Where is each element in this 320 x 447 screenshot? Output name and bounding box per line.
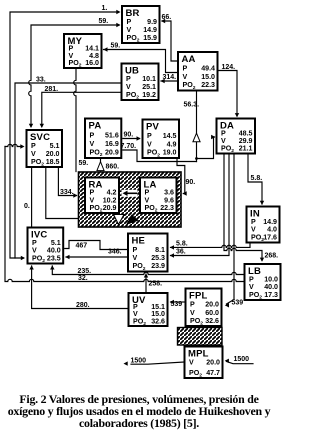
svg-text:10.1: 10.1: [142, 75, 156, 83]
svg-text:59.: 59.: [99, 18, 109, 25]
wire flow 33. UB to SVC: [15, 77, 120, 259]
svg-text:90.: 90.: [124, 132, 134, 139]
wire flow 59. BR-SVC trunk x31: [29, 18, 121, 128]
svg-text:PV: PV: [146, 122, 160, 133]
placental exchange hatched region: [178, 328, 223, 346]
svg-text:P: P: [31, 142, 36, 150]
svg-text:1500: 1500: [234, 356, 250, 363]
svg-text:1.: 1.: [102, 5, 108, 12]
svg-text:235.: 235.: [78, 268, 92, 275]
svg-text:4.9: 4.9: [167, 140, 177, 148]
svg-text:467: 467: [76, 243, 88, 250]
svg-text:10.0: 10.0: [264, 275, 278, 283]
wire flow 539. DA to FPL: [225, 155, 243, 308]
compartment UV: [129, 293, 168, 327]
svg-text:8.1: 8.1: [155, 246, 165, 254]
svg-text:AA: AA: [182, 54, 196, 65]
svg-text:32.6: 32.6: [205, 317, 219, 325]
svg-text:23.9: 23.9: [151, 262, 165, 270]
svg-text:PA: PA: [89, 121, 102, 132]
svg-text:20.0: 20.0: [205, 301, 219, 309]
caption Fig. 2: [0, 393, 283, 429]
compartment LB: [245, 264, 281, 301]
wire flow 258 UV to HE: [144, 273, 162, 291]
wire flow 59. MY to heart: [74, 70, 89, 172]
svg-text:32.: 32.: [78, 275, 88, 282]
svg-text:66.: 66.: [162, 14, 172, 21]
compartment BR: [122, 6, 160, 43]
svg-text:V: V: [190, 309, 195, 317]
wire flow 1500 maternal in: [225, 356, 253, 364]
svg-text:P: P: [147, 132, 152, 140]
svg-text:23.5: 23.5: [47, 254, 61, 262]
svg-text:19.0: 19.0: [163, 149, 177, 157]
svg-text:51.6: 51.6: [105, 132, 119, 140]
svg-text:860.: 860.: [106, 164, 120, 171]
svg-text:14.9: 14.9: [143, 26, 157, 34]
compartment SVC: [27, 130, 63, 167]
svg-text:539: 539: [171, 301, 183, 308]
wire flow 124. AA to DA: [219, 64, 239, 117]
wire flow 32. LB to SVC trunk: [5, 147, 243, 283]
svg-text:7.70.: 7.70.: [121, 143, 137, 150]
wire flow 281. UB to SVC: [40, 86, 120, 128]
svg-text:33.: 33.: [36, 77, 46, 84]
svg-text:P: P: [183, 65, 188, 73]
wire flow 5.8 DA to IN: [248, 155, 264, 205]
wire flow 90. PA to PV: [123, 132, 141, 141]
compartment PV: [143, 120, 180, 159]
svg-text:280.: 280.: [76, 302, 90, 309]
wire flow 235. LB to IVC: [50, 265, 243, 275]
svg-text:281.: 281.: [45, 86, 59, 93]
svg-text:P: P: [127, 18, 132, 26]
wire flow 5.8 IN to HE: [170, 241, 250, 250]
wire flow 0. SVC to IVC: [24, 169, 32, 227]
wire flow 467 IVC-HE: [65, 241, 127, 250]
svg-text:5.8.: 5.8.: [176, 241, 188, 248]
svg-text:P: P: [32, 239, 37, 247]
svg-text:P: P: [190, 301, 195, 309]
wire flow 346. HE to IVC: [65, 249, 126, 260]
svg-text:47.7: 47.7: [206, 369, 220, 377]
wire flow 770. ductus arteriosus PA to DA: [121, 143, 197, 161]
svg-text:20.9: 20.9: [103, 204, 117, 212]
svg-text:20.0: 20.0: [206, 358, 220, 366]
wire flow 280. UV to IVC: [29, 265, 127, 309]
compartment MY: [64, 34, 102, 69]
heart hatched region: [79, 172, 182, 227]
svg-text:49.4: 49.4: [201, 65, 215, 73]
valve arrow at heart bottom (black): [126, 215, 139, 226]
wire flow 56.3 AA to DA (isthmus): [184, 92, 216, 162]
svg-text:HE: HE: [132, 236, 146, 247]
svg-text:V: V: [183, 73, 188, 81]
svg-text:15.0: 15.0: [201, 73, 215, 81]
svg-text:5.8.: 5.8.: [251, 175, 263, 182]
svg-text:P: P: [251, 218, 256, 226]
svg-text:P: P: [249, 275, 254, 283]
svg-text:1500: 1500: [131, 358, 147, 365]
svg-text:17.3: 17.3: [264, 291, 278, 299]
svg-text:124.: 124.: [222, 64, 236, 71]
wire flow 90. PV to LA: [177, 160, 195, 196]
svg-text:36.: 36.: [176, 249, 186, 256]
svg-text:16.0: 16.0: [85, 59, 99, 67]
svg-text:V: V: [147, 140, 152, 148]
svg-text:9.9: 9.9: [147, 18, 157, 26]
compartment UB: [122, 64, 159, 101]
wire SVC to heart lower: [46, 169, 78, 219]
svg-text:334.: 334.: [60, 189, 74, 196]
svg-text:15.9: 15.9: [143, 34, 157, 42]
svg-text:V: V: [90, 140, 95, 148]
wire flow 66. AA to BR: [161, 14, 178, 61]
svg-text:20.9: 20.9: [105, 149, 119, 157]
svg-text:19.2: 19.2: [142, 91, 156, 99]
compartment MPL: [185, 347, 223, 379]
wire flow 1. trunk into BR and IVC: [10, 5, 121, 260]
svg-text:59.: 59.: [111, 43, 121, 50]
compartment HE: [128, 234, 168, 272]
svg-text:25.1: 25.1: [142, 83, 156, 91]
compartment DA: [217, 119, 256, 155]
svg-text:14.9: 14.9: [263, 218, 277, 226]
compartment FPL: [186, 289, 222, 327]
wire flow 860. heart to PA with valve: [101, 160, 120, 173]
svg-text:20.0: 20.0: [46, 150, 60, 158]
svg-text:90.: 90.: [186, 179, 196, 186]
svg-text:60.0: 60.0: [205, 309, 219, 317]
wire flow 268. DA to LB: [224, 155, 278, 262]
svg-text:25.3: 25.3: [151, 254, 165, 262]
wire into SVC left: [5, 144, 25, 148]
compartment IVC: [28, 228, 64, 265]
svg-text:16.9: 16.9: [105, 140, 119, 148]
svg-text:V: V: [31, 150, 36, 158]
svg-text:V: V: [126, 83, 131, 91]
check valve on aortic isthmus: [0, 0, 1, 1]
svg-text:P: P: [126, 75, 131, 83]
foramen ovale arrow between RA and LA: [122, 190, 138, 197]
wire flow 334. SVC to heart: [58, 169, 77, 198]
svg-text:17.6: 17.6: [263, 233, 277, 241]
svg-text:18.5: 18.5: [46, 158, 60, 166]
svg-text:21.1: 21.1: [239, 145, 253, 153]
wire flow 36. DA to HE: [170, 155, 229, 258]
svg-text:14.5: 14.5: [163, 132, 177, 140]
svg-text:268.: 268.: [265, 253, 279, 260]
svg-text:V: V: [127, 26, 132, 34]
compartment LA (atrium): [140, 178, 177, 214]
svg-text:56.3.: 56.3.: [184, 102, 200, 109]
compartment IN: [247, 207, 280, 244]
svg-text:22.3: 22.3: [160, 204, 174, 212]
compartment PA: [85, 119, 121, 159]
svg-text:P: P: [90, 132, 95, 140]
svg-text:0.: 0.: [24, 203, 30, 210]
svg-text:314.: 314.: [163, 74, 177, 81]
svg-text:5.1: 5.1: [50, 142, 60, 150]
compartment RA (atrium): [85, 178, 119, 214]
svg-text:V: V: [189, 358, 194, 366]
wire flow 59. AA to MY: [103, 43, 177, 73]
wire flow 1500 maternal out: [124, 358, 185, 366]
compartment AA: [178, 52, 218, 91]
wire flow 314. AA to UB: [161, 74, 178, 83]
svg-text:22.3: 22.3: [201, 81, 215, 89]
svg-text:59.: 59.: [79, 160, 89, 167]
svg-text:P: P: [133, 246, 138, 254]
svg-text:32.6: 32.6: [151, 317, 165, 325]
svg-text:539: 539: [232, 300, 244, 307]
svg-text:5.1: 5.1: [51, 239, 61, 247]
wire flow 539 FPL to UV: [170, 300, 184, 308]
svg-text:V: V: [133, 254, 138, 262]
valve symbol at heart bottom (white): [114, 215, 125, 225]
